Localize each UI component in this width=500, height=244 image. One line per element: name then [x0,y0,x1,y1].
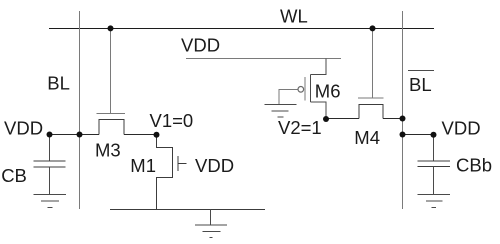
svg-text:VDD: VDD [195,155,234,176]
svg-text:BL: BL [47,73,70,94]
svg-text:M1: M1 [130,155,156,176]
svg-text:BL: BL [409,74,432,95]
svg-text:V2=1: V2=1 [278,117,322,138]
svg-text:M6: M6 [315,80,341,101]
svg-text:CB: CB [1,165,27,186]
svg-text:M4: M4 [354,127,380,148]
svg-text:CBb: CBb [456,155,492,176]
svg-text:WL: WL [280,5,308,26]
svg-text:V1=0: V1=0 [150,110,194,131]
svg-text:VDD: VDD [4,118,43,139]
svg-text:M3: M3 [95,140,121,161]
svg-text:VDD: VDD [181,35,220,56]
svg-text:VDD: VDD [442,118,481,139]
